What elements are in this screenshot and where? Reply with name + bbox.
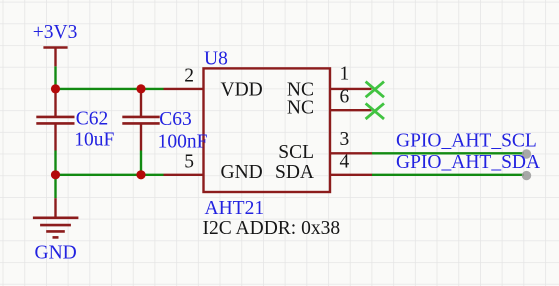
svg-text:C62: C62: [76, 109, 109, 130]
svg-text:100nF: 100nF: [158, 132, 208, 153]
svg-text:U8: U8: [204, 49, 228, 70]
svg-text:GPIO_AHT_SCL: GPIO_AHT_SCL: [396, 131, 537, 152]
svg-text:I2C ADDR: 0x38: I2C ADDR: 0x38: [203, 218, 341, 239]
svg-text:6: 6: [340, 87, 350, 108]
svg-text:4: 4: [340, 151, 350, 172]
svg-text:1: 1: [340, 64, 350, 85]
svg-text:SCL: SCL: [278, 142, 314, 163]
svg-text:5: 5: [184, 151, 194, 172]
svg-text:GPIO_AHT_SDA: GPIO_AHT_SDA: [396, 152, 540, 173]
svg-text:GND: GND: [35, 243, 77, 264]
svg-text:GND: GND: [221, 162, 263, 183]
svg-text:VDD: VDD: [221, 80, 263, 101]
svg-text:10uF: 10uF: [74, 130, 114, 151]
svg-text:3: 3: [340, 129, 350, 150]
svg-text:AHT21: AHT21: [205, 198, 265, 219]
svg-text:2: 2: [184, 65, 194, 86]
svg-text:NC: NC: [287, 98, 314, 119]
svg-text:C63: C63: [159, 109, 192, 130]
svg-text:+3V3: +3V3: [33, 22, 78, 43]
svg-text:SDA: SDA: [275, 162, 314, 183]
